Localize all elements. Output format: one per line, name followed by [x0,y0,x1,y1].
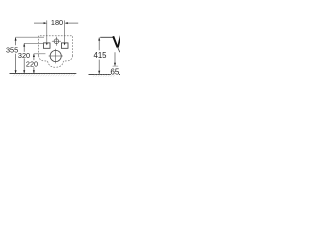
svg-text:220: 220 [26,59,38,68]
svg-text:180: 180 [51,18,63,27]
svg-text:355: 355 [6,45,18,54]
svg-text:415: 415 [93,51,107,60]
svg-text:65: 65 [110,67,120,76]
